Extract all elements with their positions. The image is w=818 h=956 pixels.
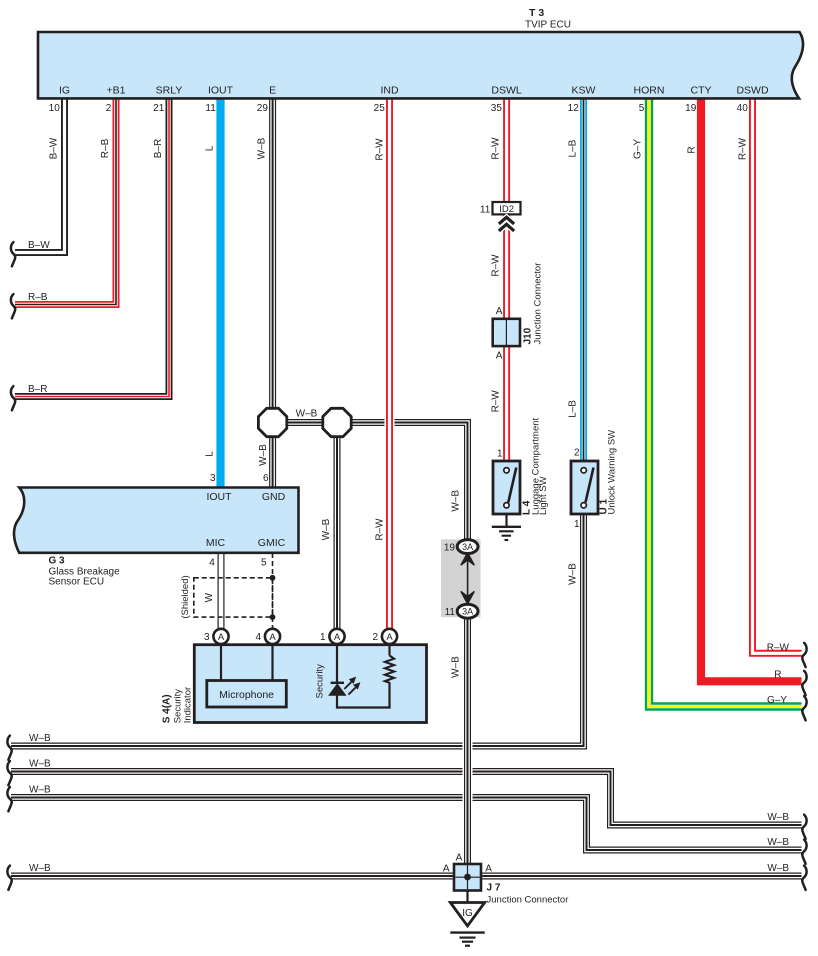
- connector brace W-B rightA: [802, 815, 806, 839]
- svg-text:3A: 3A: [462, 542, 473, 552]
- svg-text:IG: IG: [59, 85, 70, 97]
- svg-text:R–W: R–W: [491, 390, 502, 413]
- switch L4 box: [493, 461, 520, 514]
- svg-text:GMIC: GMIC: [258, 537, 286, 549]
- connector pin 2-A: [382, 629, 397, 644]
- svg-text:R–W: R–W: [375, 138, 386, 161]
- svg-text:G–Y: G–Y: [633, 139, 644, 159]
- svg-text:Junction Connector: Junction Connector: [532, 263, 543, 345]
- svg-text:G–Y: G–Y: [767, 695, 787, 706]
- svg-text:2: 2: [372, 632, 378, 643]
- shield dashed box: [194, 578, 273, 617]
- LED security lamp: [331, 682, 344, 684]
- svg-text:R: R: [774, 670, 781, 681]
- connector brace G-Y right: [802, 696, 806, 720]
- Glass Breakage Sensor ECU G3 box: [14, 488, 298, 553]
- wire W-B center vertical to J7: [463, 618, 473, 865]
- svg-text:IOUT: IOUT: [208, 85, 234, 97]
- wire HORN G-Y to connector: [649, 98, 802, 707]
- svg-text:2: 2: [106, 103, 112, 114]
- wire junction row W-B to corner: [273, 423, 468, 541]
- svg-text:W–B: W–B: [29, 759, 51, 770]
- svg-text:E: E: [269, 85, 276, 97]
- connector oval 3A pin 11: [457, 604, 478, 618]
- junction connector J10: [493, 319, 520, 346]
- svg-text:IG: IG: [462, 908, 473, 919]
- svg-text:W–B: W–B: [321, 518, 332, 540]
- svg-text:W–B: W–B: [257, 137, 268, 159]
- svg-text:KSW: KSW: [572, 85, 596, 97]
- svg-text:25: 25: [374, 103, 386, 114]
- svg-text:10: 10: [49, 103, 61, 114]
- switch U1 contacts: [581, 468, 586, 473]
- svg-text:A: A: [456, 853, 463, 864]
- svg-text:5: 5: [261, 558, 267, 569]
- svg-text:B–W: B–W: [49, 137, 60, 159]
- svg-text:A: A: [386, 632, 393, 643]
- svg-text:B–R: B–R: [153, 139, 164, 158]
- wire IOUT L blue: [216, 98, 224, 488]
- arrow up male: [461, 553, 474, 565]
- svg-text:1: 1: [320, 632, 326, 643]
- junction ring A (E/GND): [258, 408, 286, 436]
- svg-text:ID2: ID2: [499, 204, 514, 215]
- svg-text:IND: IND: [380, 85, 399, 97]
- page link chevron arrows: [499, 217, 514, 224]
- wire L4 to ground: [505, 514, 507, 527]
- wire DSWD R-W to connector: [753, 98, 802, 653]
- svg-text:11: 11: [205, 103, 216, 114]
- junction ring B: [323, 408, 351, 436]
- connector brace W-B rightC: [802, 866, 806, 890]
- connector brace B-R: [11, 386, 15, 410]
- wire +B1 R-B to connector: [15, 98, 116, 305]
- junction connector J7: [454, 864, 481, 891]
- wire E W-B to junction J-A: [269, 98, 276, 488]
- svg-text:L: L: [205, 451, 216, 457]
- wire A2 to resistor: [388, 644, 390, 656]
- svg-text:S 4(A): S 4(A): [162, 694, 173, 723]
- svg-text:3: 3: [204, 632, 210, 643]
- svg-text:19: 19: [444, 543, 456, 554]
- wire W-B row3 left to right step: [11, 798, 802, 851]
- microphone box: [207, 681, 286, 708]
- resistor in indicator: [385, 656, 394, 683]
- svg-text:Junction Connector: Junction Connector: [487, 895, 569, 906]
- svg-text:2: 2: [574, 448, 580, 459]
- svg-text:R–W: R–W: [767, 643, 790, 654]
- svg-text:12: 12: [568, 103, 580, 114]
- svg-text:A: A: [496, 351, 503, 362]
- wire W-B bottom row through J7: [11, 873, 802, 880]
- svg-text:Microphone: Microphone: [219, 689, 274, 701]
- svg-text:R–B: R–B: [100, 138, 111, 158]
- svg-text:3: 3: [210, 473, 216, 484]
- connector brace R-W right: [802, 643, 806, 667]
- svg-text:W–B: W–B: [29, 863, 51, 874]
- svg-text:(Shielded): (Shielded): [180, 575, 191, 618]
- svg-text:Sensor ECU: Sensor ECU: [49, 577, 105, 588]
- connector brace W-B row3: [7, 787, 11, 811]
- svg-text:DSWL: DSWL: [491, 85, 521, 97]
- ground symbol L4: [492, 526, 521, 528]
- svg-text:A: A: [334, 632, 341, 643]
- svg-text:R–W: R–W: [737, 137, 748, 160]
- wire W-B row2 left to right step: [11, 772, 802, 826]
- svg-text:HORN: HORN: [634, 85, 665, 97]
- wire A1 to LED: [336, 644, 338, 683]
- wire LED cathode down: [336, 695, 338, 707]
- svg-text:T 3: T 3: [529, 7, 544, 19]
- svg-text:L–B: L–B: [568, 400, 579, 418]
- switch U1 box: [571, 461, 598, 514]
- svg-text:W–B: W–B: [451, 656, 462, 678]
- svg-text:40: 40: [737, 103, 749, 114]
- svg-text:5: 5: [639, 103, 645, 114]
- connector oval 3A pin 19: [457, 540, 478, 554]
- LED arrows: [344, 682, 351, 689]
- svg-text:19: 19: [685, 103, 697, 114]
- svg-text:Light SW: Light SW: [538, 476, 549, 515]
- connector brace W-B rightB: [802, 840, 806, 864]
- svg-text:Security: Security: [314, 664, 325, 699]
- svg-text:3A: 3A: [462, 607, 473, 617]
- svg-text:W: W: [204, 592, 215, 602]
- svg-text:G 3: G 3: [49, 556, 66, 567]
- connector brace R-B: [11, 294, 15, 318]
- svg-text:A: A: [485, 864, 492, 875]
- svg-text:Unlock Warning SW: Unlock Warning SW: [606, 430, 617, 515]
- wire LED to resistor bottom: [336, 706, 391, 708]
- svg-text:4: 4: [255, 632, 261, 643]
- svg-text:IOUT: IOUT: [206, 491, 232, 503]
- svg-text:B–R: B–R: [28, 384, 47, 395]
- svg-text:SRLY: SRLY: [156, 85, 183, 97]
- IG ground triangle: [450, 903, 484, 926]
- wire SRLY B-R to connector: [15, 98, 169, 397]
- wire A3 to microphone: [220, 644, 222, 681]
- connector brace W-B row4: [7, 866, 11, 890]
- wire A4 to microphone: [271, 644, 273, 681]
- svg-text:6: 6: [263, 473, 269, 484]
- svg-text:W–B: W–B: [296, 409, 318, 420]
- svg-text:R–W: R–W: [491, 137, 502, 160]
- svg-text:DSWD: DSWD: [736, 85, 768, 97]
- svg-text:W–B: W–B: [451, 490, 462, 512]
- svg-text:1: 1: [497, 449, 503, 460]
- svg-text:4: 4: [209, 558, 215, 569]
- wire CTY R to connector: [701, 98, 802, 681]
- svg-text:W–B: W–B: [258, 444, 269, 466]
- wire J7 to IG ground: [466, 891, 468, 903]
- connector brace B-W: [11, 242, 15, 266]
- in-line connector grey block: [441, 539, 481, 617]
- wire IG B-W to connector: [15, 98, 65, 253]
- security indicator S4(A) box: [194, 645, 426, 723]
- svg-text:W–B: W–B: [767, 837, 789, 848]
- svg-text:L: L: [205, 145, 216, 151]
- arrow down female: [461, 592, 474, 604]
- connector brace R right: [802, 671, 806, 695]
- wire IND R-W down to security indicator: [385, 98, 395, 629]
- switch L4 contacts: [504, 468, 509, 473]
- wire junction J-B down to security indicator: [334, 423, 341, 630]
- connector pin 1-A: [329, 629, 344, 644]
- connector brace W-B row2: [7, 761, 11, 785]
- svg-text:GND: GND: [262, 491, 286, 503]
- wire KSW L-B to U1: [580, 98, 587, 461]
- svg-text:W–B: W–B: [568, 563, 579, 585]
- svg-text:11: 11: [445, 607, 456, 618]
- svg-text:A: A: [443, 864, 450, 875]
- svg-text:R–W: R–W: [375, 518, 386, 541]
- wire MIC W shielded: [218, 553, 225, 629]
- wire DSWL R-W via ID2 and J10 to L4: [503, 98, 510, 461]
- connector brace W-B row1: [7, 736, 11, 760]
- svg-text:11: 11: [480, 205, 491, 216]
- svg-text:TVIP ECU: TVIP ECU: [525, 20, 571, 31]
- svg-text:A: A: [269, 632, 276, 643]
- svg-text:W–B: W–B: [767, 863, 789, 874]
- svg-text:35: 35: [491, 103, 503, 114]
- wire U1 pin1 W-B to left connector: [11, 514, 584, 746]
- svg-text:MIC: MIC: [206, 537, 226, 549]
- wire GMIC dashed: [272, 553, 274, 629]
- svg-text:CTY: CTY: [691, 85, 712, 97]
- svg-text:21: 21: [153, 103, 165, 114]
- svg-text:R: R: [687, 146, 698, 153]
- svg-text:29: 29: [257, 103, 269, 114]
- svg-text:L–B: L–B: [568, 139, 579, 157]
- svg-text:+B1: +B1: [107, 85, 126, 97]
- connector pin 3-A: [213, 629, 228, 644]
- svg-text:W–B: W–B: [29, 785, 51, 796]
- svg-text:W–B: W–B: [767, 812, 789, 823]
- svg-text:B–W: B–W: [28, 240, 50, 251]
- svg-text:A: A: [496, 306, 503, 317]
- svg-text:J 7: J 7: [487, 883, 501, 894]
- svg-text:1: 1: [574, 519, 580, 530]
- connector ID2: [493, 202, 521, 214]
- svg-text:A: A: [218, 632, 225, 643]
- svg-text:R–W: R–W: [491, 254, 502, 277]
- svg-text:Indicator: Indicator: [182, 687, 193, 723]
- svg-text:R–B: R–B: [28, 292, 48, 303]
- svg-text:W–B: W–B: [29, 733, 51, 744]
- TVIP ECU T3 box: [38, 32, 803, 98]
- ground symbol IG: [450, 931, 484, 933]
- connector link line: [467, 560, 469, 597]
- wire resistor down: [388, 682, 390, 707]
- connector pin 4-A: [265, 629, 280, 644]
